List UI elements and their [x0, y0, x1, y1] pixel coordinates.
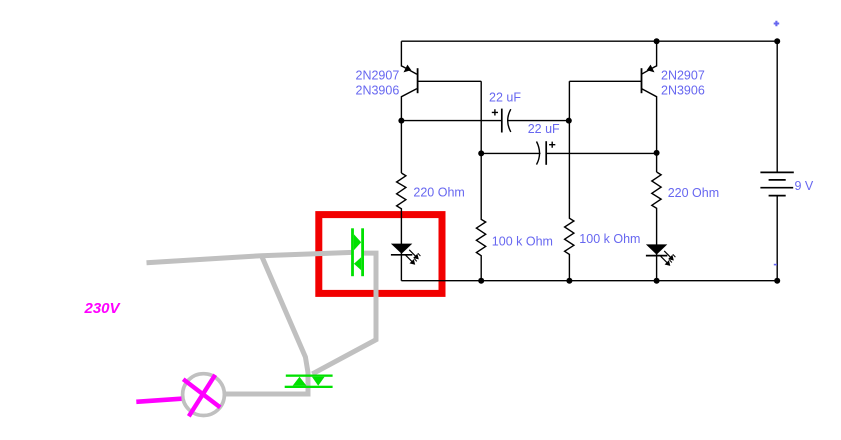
svg-text:220 Ohm: 220 Ohm: [668, 186, 719, 200]
svg-text:22 uF: 22 uF: [528, 122, 560, 136]
svg-text:2N2907: 2N2907: [356, 69, 400, 83]
svg-text:9 V: 9 V: [795, 179, 814, 193]
svg-text:100 k Ohm: 100 k Ohm: [492, 234, 553, 248]
svg-text:220 Ohm: 220 Ohm: [413, 185, 464, 199]
svg-text:100 k Ohm: 100 k Ohm: [579, 232, 640, 246]
svg-text:2N2907: 2N2907: [661, 69, 705, 83]
svg-text:2N3906: 2N3906: [661, 83, 705, 97]
svg-text:22 uF: 22 uF: [489, 90, 521, 104]
svg-text:230V: 230V: [84, 300, 122, 317]
svg-text:2N3906: 2N3906: [356, 83, 400, 97]
